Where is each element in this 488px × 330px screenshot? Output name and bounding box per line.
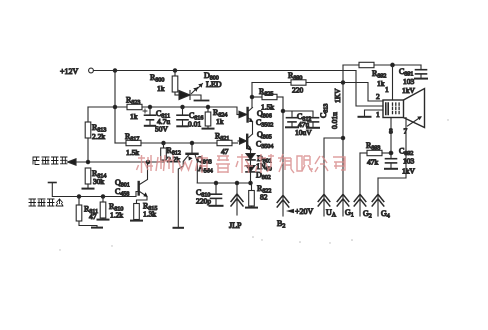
- svg-text:0.01u: 0.01u: [330, 112, 339, 129]
- resistor R810: [98, 197, 124, 220]
- wire Q806 emitter to Q805 collector: [252, 122, 254, 135]
- node Ua arrow: [318, 194, 337, 218]
- wire pin8: [389, 118, 393, 154]
- svg-text:+20V: +20V: [295, 207, 314, 216]
- wire heater pin2 from +12V: [356, 71, 383, 107]
- resistor R893: [360, 141, 393, 167]
- capacitor C811: [143, 107, 170, 134]
- wire cathode pin1: [385, 65, 393, 100]
- svg-text:R800: R800: [150, 73, 164, 84]
- svg-text:7: 7: [404, 127, 408, 136]
- svg-text:1k: 1k: [377, 79, 385, 88]
- resistor R823: [126, 96, 142, 122]
- transistor Q801: [115, 162, 148, 198]
- svg-text:R821: R821: [215, 132, 229, 143]
- wire bias rail lower: [115, 141, 217, 144]
- svg-text:103: 103: [403, 157, 415, 166]
- svg-text:+12V: +12V: [60, 67, 79, 76]
- svg-text:2.2k: 2.2k: [92, 132, 105, 141]
- node JLP arrow: [229, 183, 243, 230]
- svg-text:1k: 1k: [157, 84, 165, 93]
- LED D800: [175, 71, 222, 101]
- svg-text:R823: R823: [126, 96, 140, 107]
- capacitor C812: [286, 111, 312, 137]
- wire G1 vertical: [341, 65, 344, 216]
- diode D801: [246, 150, 272, 165]
- wire heater return to ground: [359, 110, 384, 119]
- resistor R825: [252, 87, 283, 112]
- resistor R813: [85, 122, 106, 162]
- wire vertical from +12V to bias rails: [113, 71, 116, 144]
- svg-text:220: 220: [292, 86, 304, 95]
- svg-text:2: 2: [376, 92, 380, 101]
- svg-text:C458: C458: [115, 187, 129, 198]
- wire pin7 to G4: [378, 118, 408, 179]
- capacitor C816: [177, 107, 203, 129]
- svg-text:C891: C891: [399, 67, 413, 78]
- resistor R890: [252, 71, 383, 101]
- watermark company name: [137, 154, 346, 173]
- node +12V terminal: [60, 67, 93, 76]
- wire +12V rail: [94, 69, 357, 72]
- svg-text:C3504: C3504: [256, 140, 273, 151]
- svg-text:220p: 220p: [196, 197, 211, 206]
- wire output node y183: [197, 181, 252, 184]
- svg-text:47k: 47k: [367, 158, 379, 167]
- svg-text:103: 103: [403, 77, 415, 86]
- transistor Q803: [183, 143, 213, 183]
- svg-text:R892: R892: [372, 69, 386, 80]
- svg-text:47: 47: [221, 147, 229, 156]
- wire feedback with arrow: [68, 159, 165, 165]
- resistor R824: [203, 107, 228, 129]
- svg-text:1: 1: [376, 110, 380, 119]
- svg-text:30k: 30k: [93, 177, 105, 186]
- svg-text:R825: R825: [259, 87, 273, 98]
- wire Q801 emitter to R815: [137, 197, 148, 204]
- svg-text:1.5k: 1.5k: [126, 148, 139, 157]
- svg-text:C3502: C3502: [256, 118, 273, 129]
- svg-text:1.5k: 1.5k: [261, 103, 274, 112]
- diode D802: [246, 161, 272, 184]
- wire collector node vertical: [250, 83, 253, 108]
- svg-text:1.2k: 1.2k: [110, 211, 123, 220]
- svg-text:1k: 1k: [216, 117, 224, 126]
- CRT base: [383, 100, 404, 118]
- svg-text:B2: B2: [277, 219, 285, 230]
- svg-text:1: 1: [385, 85, 389, 94]
- resistor R892: [343, 62, 421, 88]
- svg-text:JLP: JLP: [229, 221, 242, 230]
- resistor R822: [246, 183, 271, 208]
- scan specks: [59, 119, 448, 250]
- node G4 arrow: [372, 178, 390, 220]
- resistor R815: [131, 202, 157, 221]
- svg-text:C813: C813: [319, 104, 330, 118]
- svg-text:1k: 1k: [130, 112, 138, 121]
- resistor R814: [83, 168, 107, 189]
- wire +20V / B2 vertical: [281, 97, 284, 216]
- resistor R812: [161, 143, 181, 164]
- svg-text:UA: UA: [326, 208, 337, 219]
- capacitor C810: [196, 183, 223, 206]
- svg-text:R893: R893: [366, 141, 380, 152]
- transistor Q806: [237, 108, 273, 129]
- wire left bias branch: [87, 107, 89, 122]
- transistor Q805: [238, 130, 273, 151]
- svg-text:G1: G1: [345, 208, 354, 219]
- svg-text:1kV: 1kV: [402, 167, 416, 176]
- capacitor C892: [385, 147, 416, 176]
- node G1 arrow: [337, 194, 354, 218]
- svg-text:47: 47: [89, 212, 97, 221]
- svg-text:G2: G2: [363, 209, 372, 220]
- svg-text:8: 8: [389, 127, 393, 136]
- svg-text:LED: LED: [206, 80, 222, 89]
- wire filter branch: [283, 111, 313, 117]
- node B2 arrow: [277, 195, 289, 229]
- resistor R811: [76, 197, 102, 228]
- node G2 arrow: [354, 153, 372, 220]
- svg-text:10uV: 10uV: [295, 128, 312, 137]
- label feedback out (CJK drawn): [33, 157, 67, 165]
- svg-text:1kV: 1kV: [402, 86, 416, 95]
- svg-text:R817: R817: [125, 132, 139, 143]
- wire bias rail upper: [88, 105, 237, 114]
- CRT funnel: [404, 89, 425, 128]
- svg-text:50V: 50V: [155, 125, 169, 134]
- svg-text:0.01: 0.01: [188, 120, 201, 129]
- svg-text:1.3k: 1.3k: [143, 210, 156, 219]
- resistor R821: [215, 132, 238, 157]
- capacitor C813: [307, 88, 342, 129]
- wire video input: [49, 183, 138, 199]
- svg-text:1KV: 1KV: [333, 88, 342, 103]
- svg-text:82: 82: [260, 193, 268, 202]
- resistor R800: [150, 71, 178, 96]
- wire Q803 emitter down: [174, 166, 184, 228]
- svg-text:R890: R890: [288, 71, 302, 82]
- wire Ua branch: [324, 138, 343, 216]
- label video input (CJK drawn): [29, 199, 63, 206]
- svg-text:G4: G4: [381, 209, 390, 220]
- resistor R817: [125, 132, 141, 157]
- capacitor C891: [399, 65, 427, 95]
- label +20V: [288, 207, 314, 216]
